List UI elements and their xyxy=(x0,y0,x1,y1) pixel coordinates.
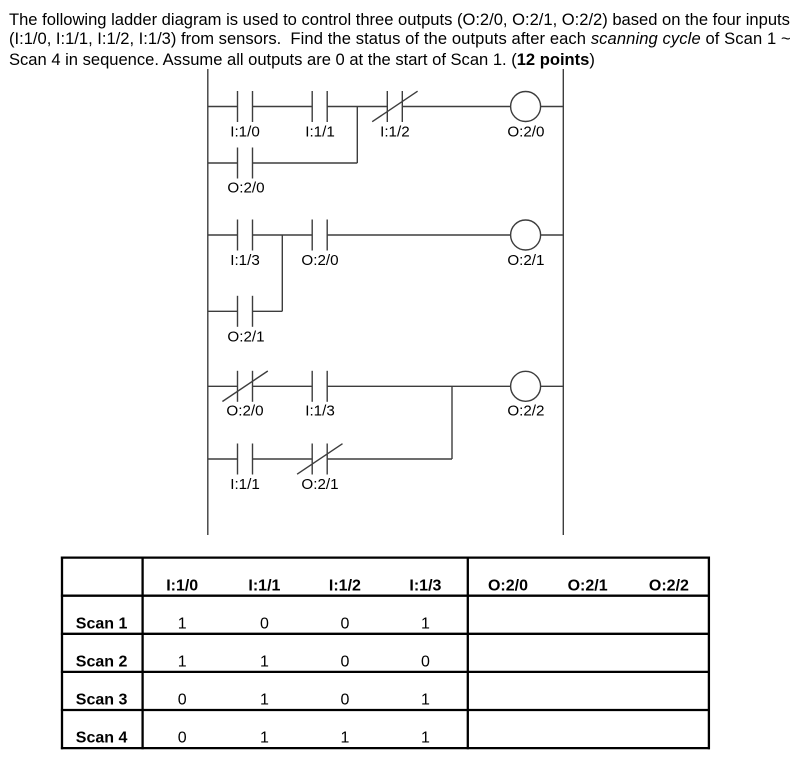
wire rung 2: rail to I:1/3 xyxy=(208,234,238,236)
contact O:2/0 (NO, seal-in branch) xyxy=(238,148,253,179)
svg-text:O:2/1: O:2/1 xyxy=(227,328,264,345)
wire rung 1: I:1/2 to coil O:2/0 xyxy=(402,106,510,108)
contact I:1/3 (NO, rung 3) xyxy=(312,371,327,402)
svg-text:I:1/3: I:1/3 xyxy=(409,577,441,594)
svg-text:O:2/0: O:2/0 xyxy=(488,577,528,594)
svg-text:1: 1 xyxy=(421,692,430,709)
contact I:1/1 (NO, branch 3) xyxy=(238,444,253,475)
svg-text:1: 1 xyxy=(178,654,187,671)
svg-text:0: 0 xyxy=(178,730,187,747)
wire junction 2 vertical xyxy=(281,235,283,311)
wire branch 2: rail to O:2/1 contact xyxy=(208,310,238,312)
contact O:2/0 (NO, rung 2) xyxy=(312,220,327,251)
svg-text:0: 0 xyxy=(340,692,349,709)
svg-text:0: 0 xyxy=(260,615,269,632)
svg-text:Scan 1: Scan 1 xyxy=(76,615,128,632)
svg-text:1: 1 xyxy=(340,730,349,747)
svg-text:O:2/0: O:2/0 xyxy=(301,252,338,269)
wire rung 1: I:1/1 to I:1/2 xyxy=(327,106,387,108)
wire branch 1: O:2/0 contact to junction xyxy=(253,162,358,164)
svg-text:O:2/1: O:2/1 xyxy=(507,252,544,269)
wire rung 1: rail to I:1/0 xyxy=(208,106,238,108)
svg-text:1: 1 xyxy=(260,692,269,709)
table header row xyxy=(76,577,689,746)
svg-text:I:1/2: I:1/2 xyxy=(380,124,410,141)
wire rung 3: I:1/3 to coil O:2/2 xyxy=(327,385,510,387)
svg-text:I:1/1: I:1/1 xyxy=(305,124,335,141)
svg-text:O:2/1: O:2/1 xyxy=(301,476,338,493)
svg-text:O:2/0: O:2/0 xyxy=(507,124,544,141)
svg-text:Scan 4: Scan 4 xyxy=(76,730,128,747)
left power rail xyxy=(207,69,209,535)
wire rung 2: O:2/0 contact to coil O:2/1 xyxy=(327,234,510,236)
contact O:2/1 (NC, branch 3) xyxy=(297,444,342,475)
svg-text:I:1/1: I:1/1 xyxy=(230,476,260,493)
wire rung 3: coil O:2/2 to right rail xyxy=(541,385,564,387)
svg-text:O:2/0: O:2/0 xyxy=(227,180,264,197)
right power rail xyxy=(562,69,564,535)
contact I:1/0 (NO) xyxy=(238,91,253,122)
wire rung 2: coil O:2/1 to right rail xyxy=(541,234,564,236)
wire branch 3: I:1/1 to O:2/1 NC contact xyxy=(253,458,313,460)
contact I:1/3 (NO) xyxy=(238,220,253,251)
table data digits xyxy=(178,615,430,746)
svg-text:1: 1 xyxy=(178,615,187,632)
svg-text:1: 1 xyxy=(421,730,430,747)
svg-text:Scan 3: Scan 3 xyxy=(76,692,128,709)
svg-text:O:2/1: O:2/1 xyxy=(568,577,608,594)
wire branch 1: rail to O:2/0 contact xyxy=(208,162,238,164)
svg-text:O:2/2: O:2/2 xyxy=(507,403,544,420)
svg-text:0: 0 xyxy=(421,654,430,671)
svg-text:1: 1 xyxy=(421,615,430,632)
svg-text:0: 0 xyxy=(340,615,349,632)
wire rung 3: O:2/0 NC to I:1/3 xyxy=(253,385,313,387)
svg-text:1: 1 xyxy=(260,730,269,747)
contact I:1/2 (NC) xyxy=(372,91,417,122)
wire branch 3: rail to I:1/1 contact xyxy=(208,458,238,460)
results table grid xyxy=(61,557,710,750)
svg-text:I:1/0: I:1/0 xyxy=(166,577,198,594)
svg-text:O:2/2: O:2/2 xyxy=(649,577,689,594)
svg-text:I:1/2: I:1/2 xyxy=(329,577,361,594)
wire rung 3: rail to O:2/0 NC contact xyxy=(208,385,238,387)
svg-text:O:2/0: O:2/0 xyxy=(226,403,263,420)
coil O:2/2 xyxy=(511,371,541,401)
wire junction 1 vertical xyxy=(356,107,358,164)
wire rung 2: I:1/3 to O:2/0 contact xyxy=(253,234,313,236)
svg-text:0: 0 xyxy=(340,654,349,671)
svg-text:Scan 2: Scan 2 xyxy=(76,654,128,671)
svg-text:1: 1 xyxy=(260,654,269,671)
svg-text:I:1/3: I:1/3 xyxy=(305,403,335,420)
svg-text:I:1/3: I:1/3 xyxy=(230,252,260,269)
svg-text:I:1/1: I:1/1 xyxy=(248,577,280,594)
wire branch 2: O:2/1 contact to junction xyxy=(253,310,283,312)
contact I:1/1 (NO) xyxy=(312,91,327,122)
coil O:2/0 xyxy=(511,92,541,122)
wire rung 1: I:1/0 to I:1/1 xyxy=(253,106,313,108)
problem statement paragraph xyxy=(9,0,802,1)
svg-text:I:1/0: I:1/0 xyxy=(230,124,260,141)
coil O:2/1 xyxy=(511,220,541,250)
wire branch 3: O:2/1 NC to junction xyxy=(327,458,452,460)
svg-text:0: 0 xyxy=(178,692,187,709)
contact O:2/1 (NO, seal-in branch) xyxy=(238,296,253,327)
wire junction 3 vertical xyxy=(451,386,453,459)
wire rung 1: coil O:2/0 to right rail xyxy=(541,106,564,108)
contact O:2/0 (NC, rung 3) xyxy=(222,371,267,402)
